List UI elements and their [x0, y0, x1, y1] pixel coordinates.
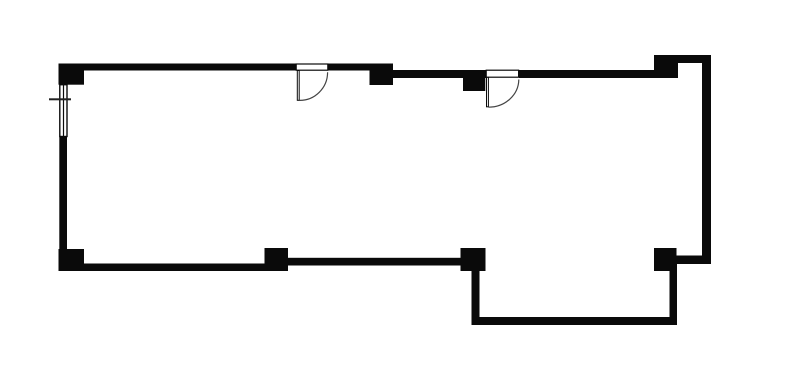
wall top-right segment (east of door D2) [519, 70, 658, 78]
wall bottom-left segment [59, 264, 265, 272]
wall bottom middle segment [288, 258, 461, 266]
window W1 glazing line [63, 85, 65, 137]
door D2 leaf [487, 77, 489, 106]
column P4 (bottom right) [654, 248, 677, 271]
column P1 (top-left corner) [59, 64, 85, 85]
column P3 (top-right step corner) [654, 55, 678, 78]
door D2 head jamb [486, 70, 518, 77]
column P5 (bottom center-right) [461, 248, 486, 271]
wall annex bottom [472, 317, 678, 325]
wall top-right upper parapet [654, 55, 711, 63]
door D1 head jamb [296, 64, 328, 70]
door D1 leaf [297, 71, 299, 101]
window W1 sill tick [49, 98, 71, 100]
wall left (west exterior, below window) [59, 137, 67, 272]
wall annex east side [670, 264, 678, 325]
wall right (east exterior) [702, 55, 711, 264]
wall bottom-right stub (column P4 to east wall) [676, 256, 711, 265]
column P6 (bottom center-left) [265, 248, 289, 271]
wall top-left segment (east of door D1) [328, 64, 393, 71]
window W1 frame (left wall) [60, 85, 67, 137]
column P8 (west jamb of door D2) [463, 70, 485, 91]
column P2 (top wall step) [370, 64, 394, 86]
wall top-right segment (west of door D2) [390, 70, 486, 78]
column P7 (bottom-left corner) [59, 249, 85, 271]
wall top-left segment (west of door D1) [59, 64, 297, 71]
door D2 swing arc [488, 80, 518, 108]
door D1 swing arc [299, 72, 327, 100]
wall annex west side [472, 266, 480, 321]
